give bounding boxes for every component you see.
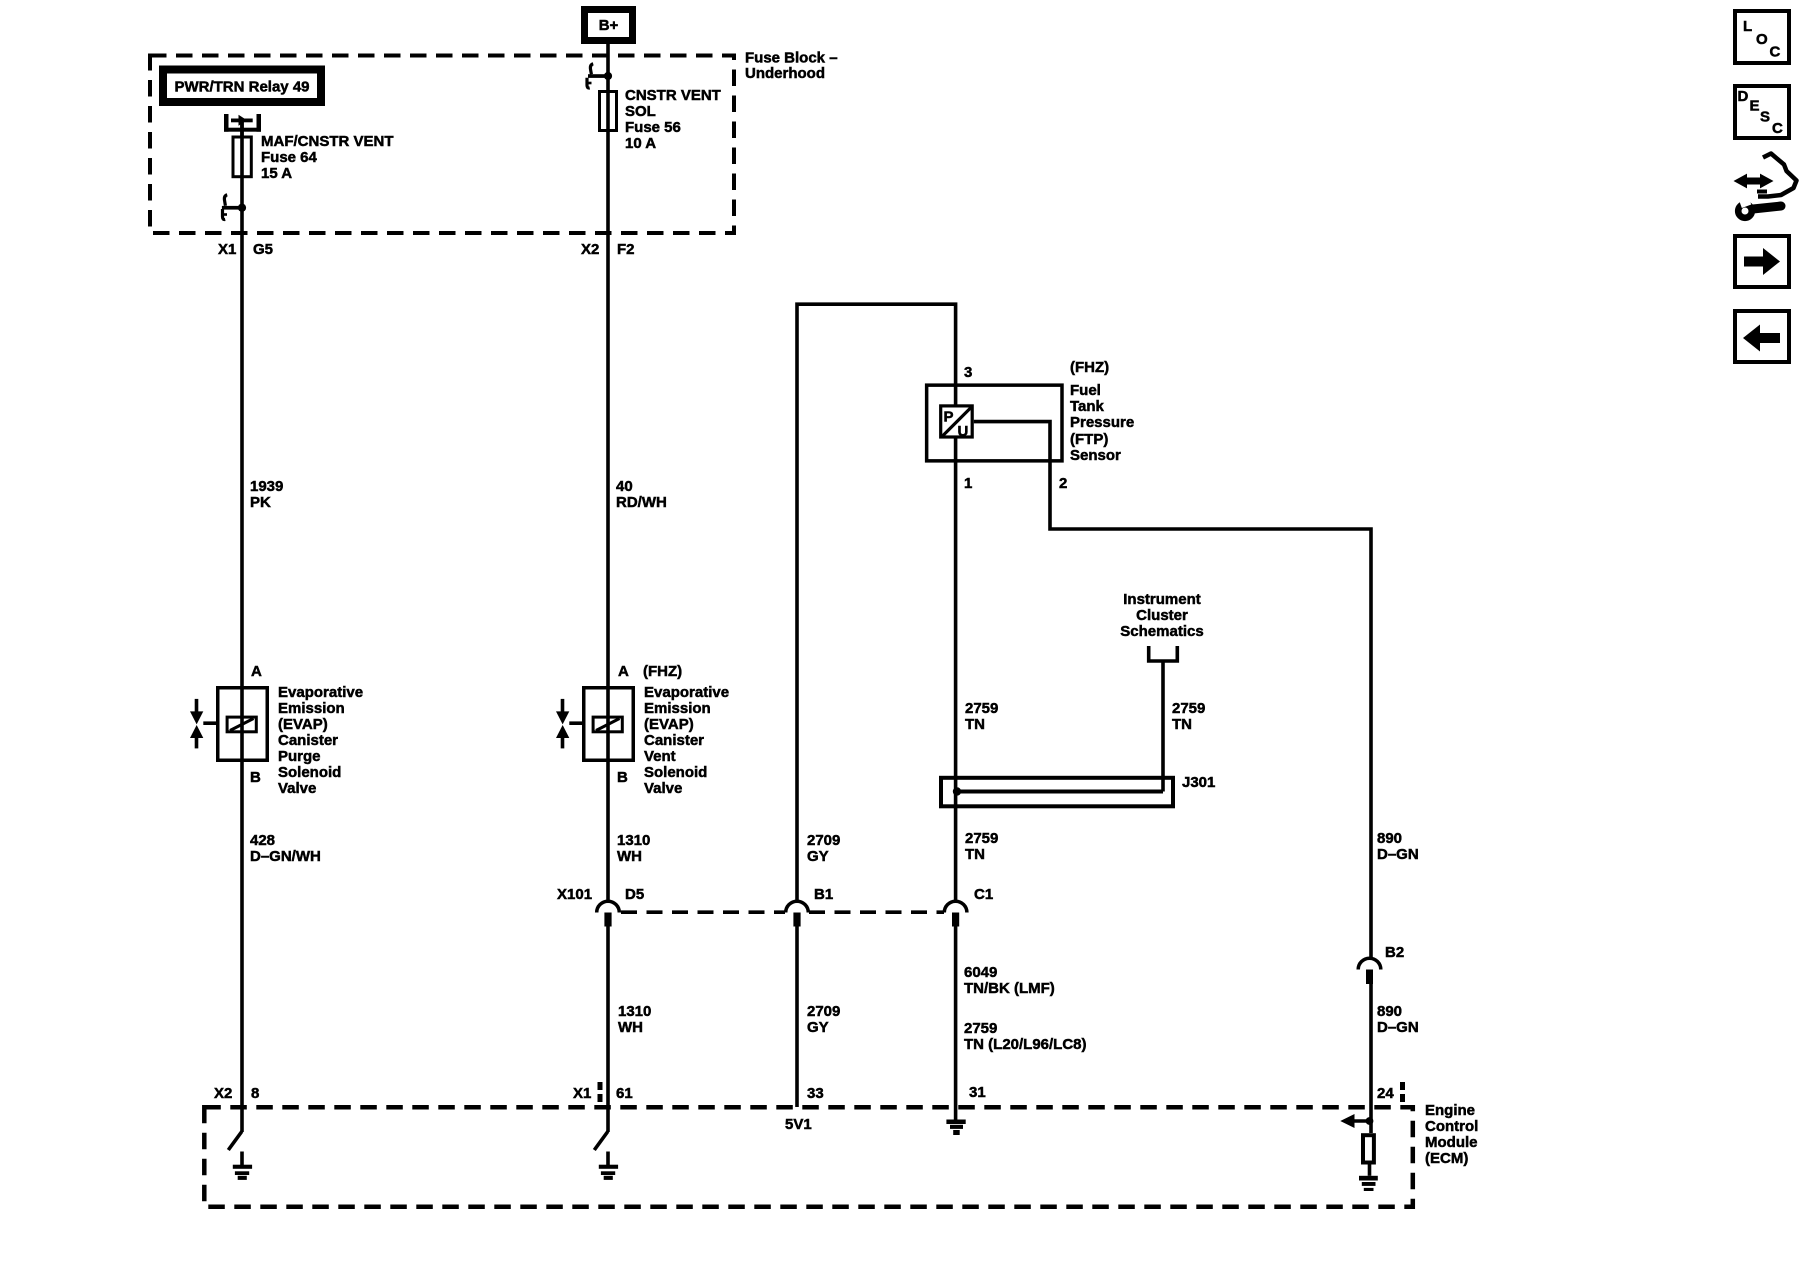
svg-text:Fuse 56: Fuse 56 [625, 119, 681, 136]
svg-text:O: O [1756, 31, 1768, 48]
svg-text:B1: B1 [814, 886, 833, 903]
svg-text:1939: 1939 [250, 478, 283, 495]
svg-text:2709: 2709 [807, 832, 840, 849]
svg-text:Valve: Valve [278, 780, 316, 797]
svg-text:B+: B+ [599, 17, 619, 34]
connector X101 C1 pin [952, 913, 959, 927]
ground at pin 31 [946, 1120, 965, 1136]
svg-text:40: 40 [616, 478, 633, 495]
sensor FTP outer box [927, 385, 1062, 461]
wire 890 D-GN below B2 [1369, 984, 1373, 1133]
label wire 2759 TN L20 [964, 1020, 1087, 1053]
connector X101 dashed line [621, 910, 944, 914]
svg-text:A: A [251, 663, 262, 680]
label wire 2759 TN cluster [1172, 700, 1205, 733]
icon wiring pigtail with wrench [1734, 154, 1797, 218]
svg-text:Canister: Canister [278, 732, 338, 749]
wire 2709 GY with top bend to sensor [797, 304, 956, 902]
wire 1939 PK vertical [240, 122, 244, 1132]
svg-text:E: E [1750, 98, 1760, 115]
svg-text:890: 890 [1377, 830, 1402, 847]
resistor element at pin 24 [1363, 1135, 1374, 1162]
svg-text:TN: TN [1172, 716, 1192, 733]
svg-text:31: 31 [969, 1084, 986, 1101]
svg-text:D–GN/WH: D–GN/WH [250, 848, 321, 865]
svg-text:D–GN: D–GN [1377, 846, 1419, 863]
svg-text:TN: TN [965, 716, 985, 733]
svg-text:5V1: 5V1 [785, 1116, 812, 1133]
svg-text:(FHZ): (FHZ) [643, 663, 682, 680]
connector X101 C1 arc [944, 901, 967, 912]
svg-text:15 A: 15 A [261, 165, 292, 182]
svg-text:890: 890 [1377, 1003, 1402, 1020]
svg-text:C1: C1 [974, 886, 993, 903]
label EVAP canister purge solenoid valve [278, 684, 363, 797]
label wire 2759 TN below J301 [965, 830, 998, 863]
wire 890 D-GN from sensor pin 2 [974, 422, 1371, 959]
svg-text:Engine: Engine [1425, 1102, 1475, 1119]
svg-text:X1: X1 [573, 1085, 591, 1102]
connector X101 B1 pin [793, 913, 800, 927]
svg-text:10 A: 10 A [625, 135, 656, 152]
connector X101 D5 arc [597, 901, 620, 912]
svg-text:PWR/TRN Relay 49: PWR/TRN Relay 49 [174, 79, 309, 96]
svg-text:(EVAP): (EVAP) [644, 716, 694, 733]
icon next arrow button [1735, 236, 1789, 287]
svg-text:Vent: Vent [644, 748, 676, 765]
svg-text:PK: PK [250, 494, 271, 511]
icon DESC button [1735, 86, 1789, 138]
svg-text:Pressure: Pressure [1070, 414, 1134, 431]
fuse block underhood dashed box [150, 56, 734, 234]
svg-text:GY: GY [807, 1019, 829, 1036]
label wire 428 D-GN/WH [250, 832, 321, 865]
svg-text:Module: Module [1425, 1134, 1478, 1151]
B+ battery terminal [585, 10, 633, 41]
connector label X1 G5 [218, 241, 273, 258]
svg-text:TN (L20/L96/LC8): TN (L20/L96/LC8) [964, 1036, 1087, 1053]
internal arrow at pin 24 [1340, 1114, 1368, 1128]
svg-text:Cluster: Cluster [1136, 607, 1188, 624]
svg-text:C: C [1772, 120, 1783, 137]
svg-text:Fuse Block –: Fuse Block – [745, 50, 838, 67]
svg-text:X101: X101 [557, 886, 592, 903]
label wire 1310 WH upper [617, 832, 650, 865]
svg-text:Valve: Valve [644, 780, 682, 797]
svg-text:D5: D5 [625, 886, 644, 903]
label wire 40 RD/WH [616, 478, 667, 511]
svg-text:Solenoid: Solenoid [644, 764, 707, 781]
connector B2 arc [1358, 958, 1381, 969]
off-page connector bracket [1149, 646, 1178, 661]
icon back arrow button [1735, 311, 1789, 362]
module ECM dashed box [204, 1107, 1413, 1207]
switch blade at pin 8 [228, 1132, 242, 1151]
label wire 1310 WH lower [618, 1003, 651, 1036]
svg-text:2759: 2759 [965, 830, 998, 847]
svg-text:3: 3 [964, 364, 972, 381]
svg-text:Emission: Emission [278, 700, 345, 717]
connector label X2 F2 [581, 241, 635, 258]
svg-text:33: 33 [807, 1085, 824, 1102]
svg-text:MAF/CNSTR VENT: MAF/CNSTR VENT [261, 133, 394, 150]
wire 2709 GY to ECM [795, 927, 799, 1108]
svg-text:Solenoid: Solenoid [278, 764, 341, 781]
svg-text:(ECM): (ECM) [1425, 1150, 1468, 1167]
svg-text:S: S [1760, 109, 1770, 126]
wire 2759 TN from cluster [1161, 661, 1165, 792]
svg-text:B: B [250, 769, 261, 786]
svg-text:Schematics: Schematics [1120, 623, 1203, 640]
junction dot J301 [953, 787, 961, 795]
svg-text:Fuse 64: Fuse 64 [261, 149, 318, 166]
label Engine Control Module ECM [1425, 1102, 1478, 1167]
valve pintle arrows (purge) [190, 699, 216, 748]
label wire 890 D-GN lower [1377, 1003, 1419, 1036]
svg-text:D: D [1738, 88, 1749, 105]
svg-text:GY: GY [807, 848, 829, 865]
label wire 2709 GY lower [807, 1003, 840, 1036]
svg-text:Fuel: Fuel [1070, 382, 1101, 399]
ground at pin 8 [233, 1152, 252, 1180]
svg-text:24: 24 [1377, 1085, 1394, 1102]
svg-text:U: U [958, 423, 969, 440]
wire 40 RD/WH vertical [606, 44, 610, 902]
svg-text:Evaporative: Evaporative [278, 684, 363, 701]
solenoid EVAP canister vent valve [584, 688, 634, 761]
svg-text:Purge: Purge [278, 748, 321, 765]
wire 1310 WH to ECM [606, 927, 610, 1133]
svg-text:6049: 6049 [964, 964, 997, 981]
icon LOC button [1735, 11, 1789, 63]
label FTP sensor [1070, 359, 1134, 464]
fuse F56 CNSTR VENT SOL [600, 92, 617, 131]
bus clamp symbol on wire 1939 [222, 195, 246, 220]
label fuse 64 [261, 133, 394, 182]
ground at pin 61 [599, 1152, 618, 1180]
label wire 890 D-GN upper [1377, 830, 1419, 863]
solenoid EVAP canister purge valve [218, 688, 268, 761]
svg-text:F2: F2 [617, 241, 635, 258]
label wire 1939 PK [250, 478, 283, 511]
svg-text:Sensor: Sensor [1070, 447, 1121, 464]
svg-text:61: 61 [616, 1085, 633, 1102]
svg-text:X2: X2 [581, 241, 599, 258]
svg-text:2759: 2759 [1172, 700, 1205, 717]
connector separator dashes at 24 [1400, 1082, 1405, 1102]
svg-text:Control: Control [1425, 1118, 1478, 1135]
svg-text:L: L [1743, 18, 1752, 35]
fuse F64 MAF/CNSTR VENT [233, 137, 251, 177]
relay PWR/TRN Relay 49 [163, 70, 321, 103]
connector B2 pin [1366, 970, 1373, 985]
svg-text:B: B [617, 769, 628, 786]
svg-text:1310: 1310 [618, 1003, 651, 1020]
wire 2759 TN below sensor [954, 437, 958, 902]
svg-text:Instrument: Instrument [1123, 591, 1201, 608]
relay contact feed symbol [224, 114, 261, 137]
svg-text:8: 8 [251, 1085, 259, 1102]
label Fuse Block Underhood [745, 50, 838, 83]
svg-text:P: P [944, 409, 954, 426]
svg-text:Underhood: Underhood [745, 65, 825, 82]
svg-text:A: A [618, 663, 629, 680]
svg-text:G5: G5 [253, 241, 273, 258]
svg-text:2759: 2759 [965, 700, 998, 717]
svg-text:1310: 1310 [617, 832, 650, 849]
label wire 2759 TN at J301 left [965, 700, 998, 733]
svg-text:J301: J301 [1182, 774, 1215, 791]
svg-text:(EVAP): (EVAP) [278, 716, 328, 733]
svg-text:2759: 2759 [964, 1020, 997, 1037]
svg-text:WH: WH [618, 1019, 643, 1036]
svg-text:X1: X1 [218, 241, 236, 258]
ground at pin 24 [1359, 1165, 1378, 1192]
label ECM pin X1 61 [573, 1085, 633, 1102]
bus clamp symbol on wire 40 [587, 64, 612, 88]
svg-text:WH: WH [617, 848, 642, 865]
connector separator dashes at X1 [598, 1082, 603, 1102]
valve pintle arrows (vent) [556, 699, 582, 748]
svg-text:2: 2 [1059, 475, 1067, 492]
svg-text:428: 428 [250, 832, 275, 849]
connector X101 D5 pin [604, 913, 611, 927]
junction dot at pin 24 [1366, 1117, 1374, 1125]
svg-text:TN: TN [965, 846, 985, 863]
svg-text:D–GN: D–GN [1377, 1019, 1419, 1036]
svg-text:C: C [1770, 44, 1781, 61]
svg-text:(FHZ): (FHZ) [1070, 359, 1109, 376]
svg-text:Emission: Emission [644, 700, 711, 717]
svg-text:RD/WH: RD/WH [616, 494, 667, 511]
label fuse 56 [625, 87, 721, 152]
svg-text:1: 1 [964, 475, 972, 492]
svg-text:CNSTR VENT: CNSTR VENT [625, 87, 721, 104]
svg-text:Canister: Canister [644, 732, 704, 749]
svg-text:TN/BK (LMF): TN/BK (LMF) [964, 980, 1055, 997]
switch blade at pin 61 [594, 1132, 608, 1151]
svg-text:X2: X2 [214, 1085, 232, 1102]
svg-text:(FTP): (FTP) [1070, 431, 1108, 448]
label wire 6049 TN/BK [964, 964, 1055, 997]
wire 2759 TN to ECM [954, 927, 958, 1121]
connector X101 B1 arc [786, 901, 809, 912]
splice J301 busbar [941, 778, 1173, 807]
label wire 2709 GY upper [807, 832, 840, 865]
svg-text:SOL: SOL [625, 103, 656, 120]
svg-text:B2: B2 [1385, 944, 1404, 961]
label ECM pin X2 8 [214, 1085, 259, 1102]
svg-text:2709: 2709 [807, 1003, 840, 1020]
label EVAP canister vent solenoid valve [644, 684, 729, 797]
sensor P/U transducer box [941, 406, 973, 440]
svg-text:Evaporative: Evaporative [644, 684, 729, 701]
label instrument cluster schematics [1120, 591, 1203, 640]
svg-text:Tank: Tank [1070, 398, 1105, 415]
